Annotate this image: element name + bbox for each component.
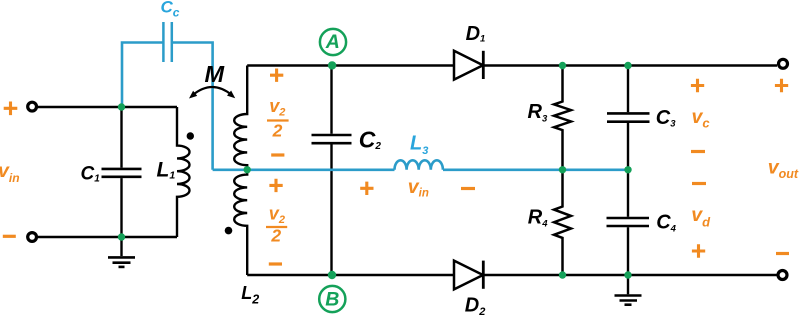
svg-text:vin: vin [408, 176, 429, 200]
capacitor C1 [81, 107, 142, 237]
label + output [775, 79, 788, 92]
diode D1 [454, 23, 485, 80]
svg-text:D1: D1 [466, 23, 486, 45]
capacitor C2 [312, 66, 382, 276]
terminal input - [28, 233, 37, 242]
svg-text:C3: C3 [656, 107, 676, 129]
junction dot R3 top [559, 62, 566, 69]
label vin input [0, 160, 20, 185]
label - input [3, 235, 16, 238]
node A [320, 29, 346, 70]
junction dot C3 top [624, 62, 631, 69]
svg-text:A: A [325, 31, 340, 53]
wire bottom input row [38, 236, 177, 238]
svg-text:R4: R4 [528, 206, 548, 229]
label - output [776, 252, 789, 255]
svg-text:R3: R3 [528, 101, 548, 124]
label + secondary top [270, 69, 283, 82]
svg-text:vout: vout [768, 157, 799, 182]
label v2/2 bottom [266, 203, 287, 245]
label vin L3 row [408, 176, 429, 200]
capacitor C4 [607, 170, 677, 275]
capacitor C3 [607, 66, 676, 170]
label + vc [691, 79, 704, 92]
label + input [4, 102, 18, 116]
label - vc [691, 150, 705, 153]
inductor L1 [157, 107, 190, 237]
svg-text:L3: L3 [410, 133, 428, 157]
label v2/2 top [267, 96, 289, 141]
ground left [108, 237, 135, 267]
label - vd [692, 182, 706, 185]
wire top row A [247, 64, 777, 66]
svg-text:vin: vin [0, 160, 20, 185]
label vd [691, 204, 711, 229]
mutual coupling arrow M [189, 61, 235, 99]
svg-text:C4: C4 [656, 212, 676, 235]
svg-text:v2: v2 [269, 203, 285, 226]
resistor R4 [528, 170, 571, 275]
wire bottom row B [247, 274, 777, 276]
svg-text:2: 2 [272, 120, 283, 140]
label + L3 row [360, 182, 373, 195]
ground right [615, 275, 642, 305]
svg-text:v2: v2 [269, 96, 285, 119]
label + vd [692, 244, 705, 257]
inductor L3 [395, 133, 443, 170]
label - secondary bottom [269, 262, 282, 265]
junction dot input top [118, 103, 125, 110]
transformer dot secondary [225, 227, 233, 235]
label - secondary top [271, 153, 284, 156]
terminal output - [778, 271, 787, 280]
svg-text:L1: L1 [157, 158, 176, 181]
junction dot R3 bottom [559, 166, 566, 173]
svg-text:C1: C1 [81, 163, 101, 184]
svg-text:2: 2 [270, 225, 281, 245]
transformer dot primary [187, 132, 194, 139]
terminal output + [779, 59, 788, 68]
label vout [768, 157, 799, 182]
junction dot input bottom [118, 233, 125, 240]
svg-text:C2: C2 [359, 127, 382, 153]
svg-text:Cc: Cc [161, 0, 180, 19]
wire middle cyan row [213, 169, 628, 172]
junction dot R4 bottom [559, 271, 566, 278]
transformer secondary winding L2 [234, 66, 259, 307]
svg-text:M: M [205, 61, 225, 87]
junction dot center tap [244, 166, 251, 173]
svg-text:L2: L2 [241, 283, 259, 306]
resistor R3 [528, 66, 572, 170]
junction dot C4 bottom [624, 271, 631, 278]
label - L3 row [461, 187, 475, 190]
svg-text:B: B [325, 288, 339, 310]
diode D2 [454, 261, 485, 315]
svg-text:D2: D2 [465, 294, 486, 315]
label vc [692, 106, 711, 130]
node B [319, 271, 345, 312]
label + secondary bottom [269, 179, 282, 192]
capacitor Cc coupling [122, 0, 213, 170]
svg-text:vc: vc [692, 106, 711, 130]
wire top input row [38, 106, 177, 108]
terminal input + [28, 102, 37, 111]
svg-text:vd: vd [691, 204, 711, 229]
junction dot C3 bottom [624, 166, 631, 173]
